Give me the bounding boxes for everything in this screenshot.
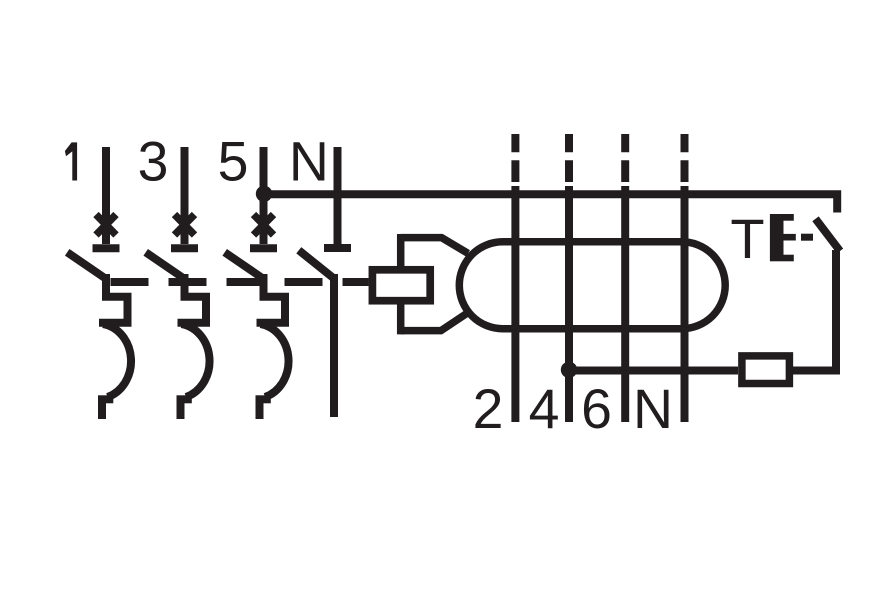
svg-text:4: 4 — [529, 378, 560, 440]
svg-text:2: 2 — [473, 378, 504, 440]
svg-text:N: N — [289, 131, 329, 193]
svg-text:5: 5 — [218, 131, 249, 193]
svg-text:T: T — [730, 207, 764, 270]
svg-text:N: N — [633, 378, 673, 440]
svg-text:3: 3 — [138, 131, 169, 193]
svg-text:6: 6 — [581, 378, 612, 440]
